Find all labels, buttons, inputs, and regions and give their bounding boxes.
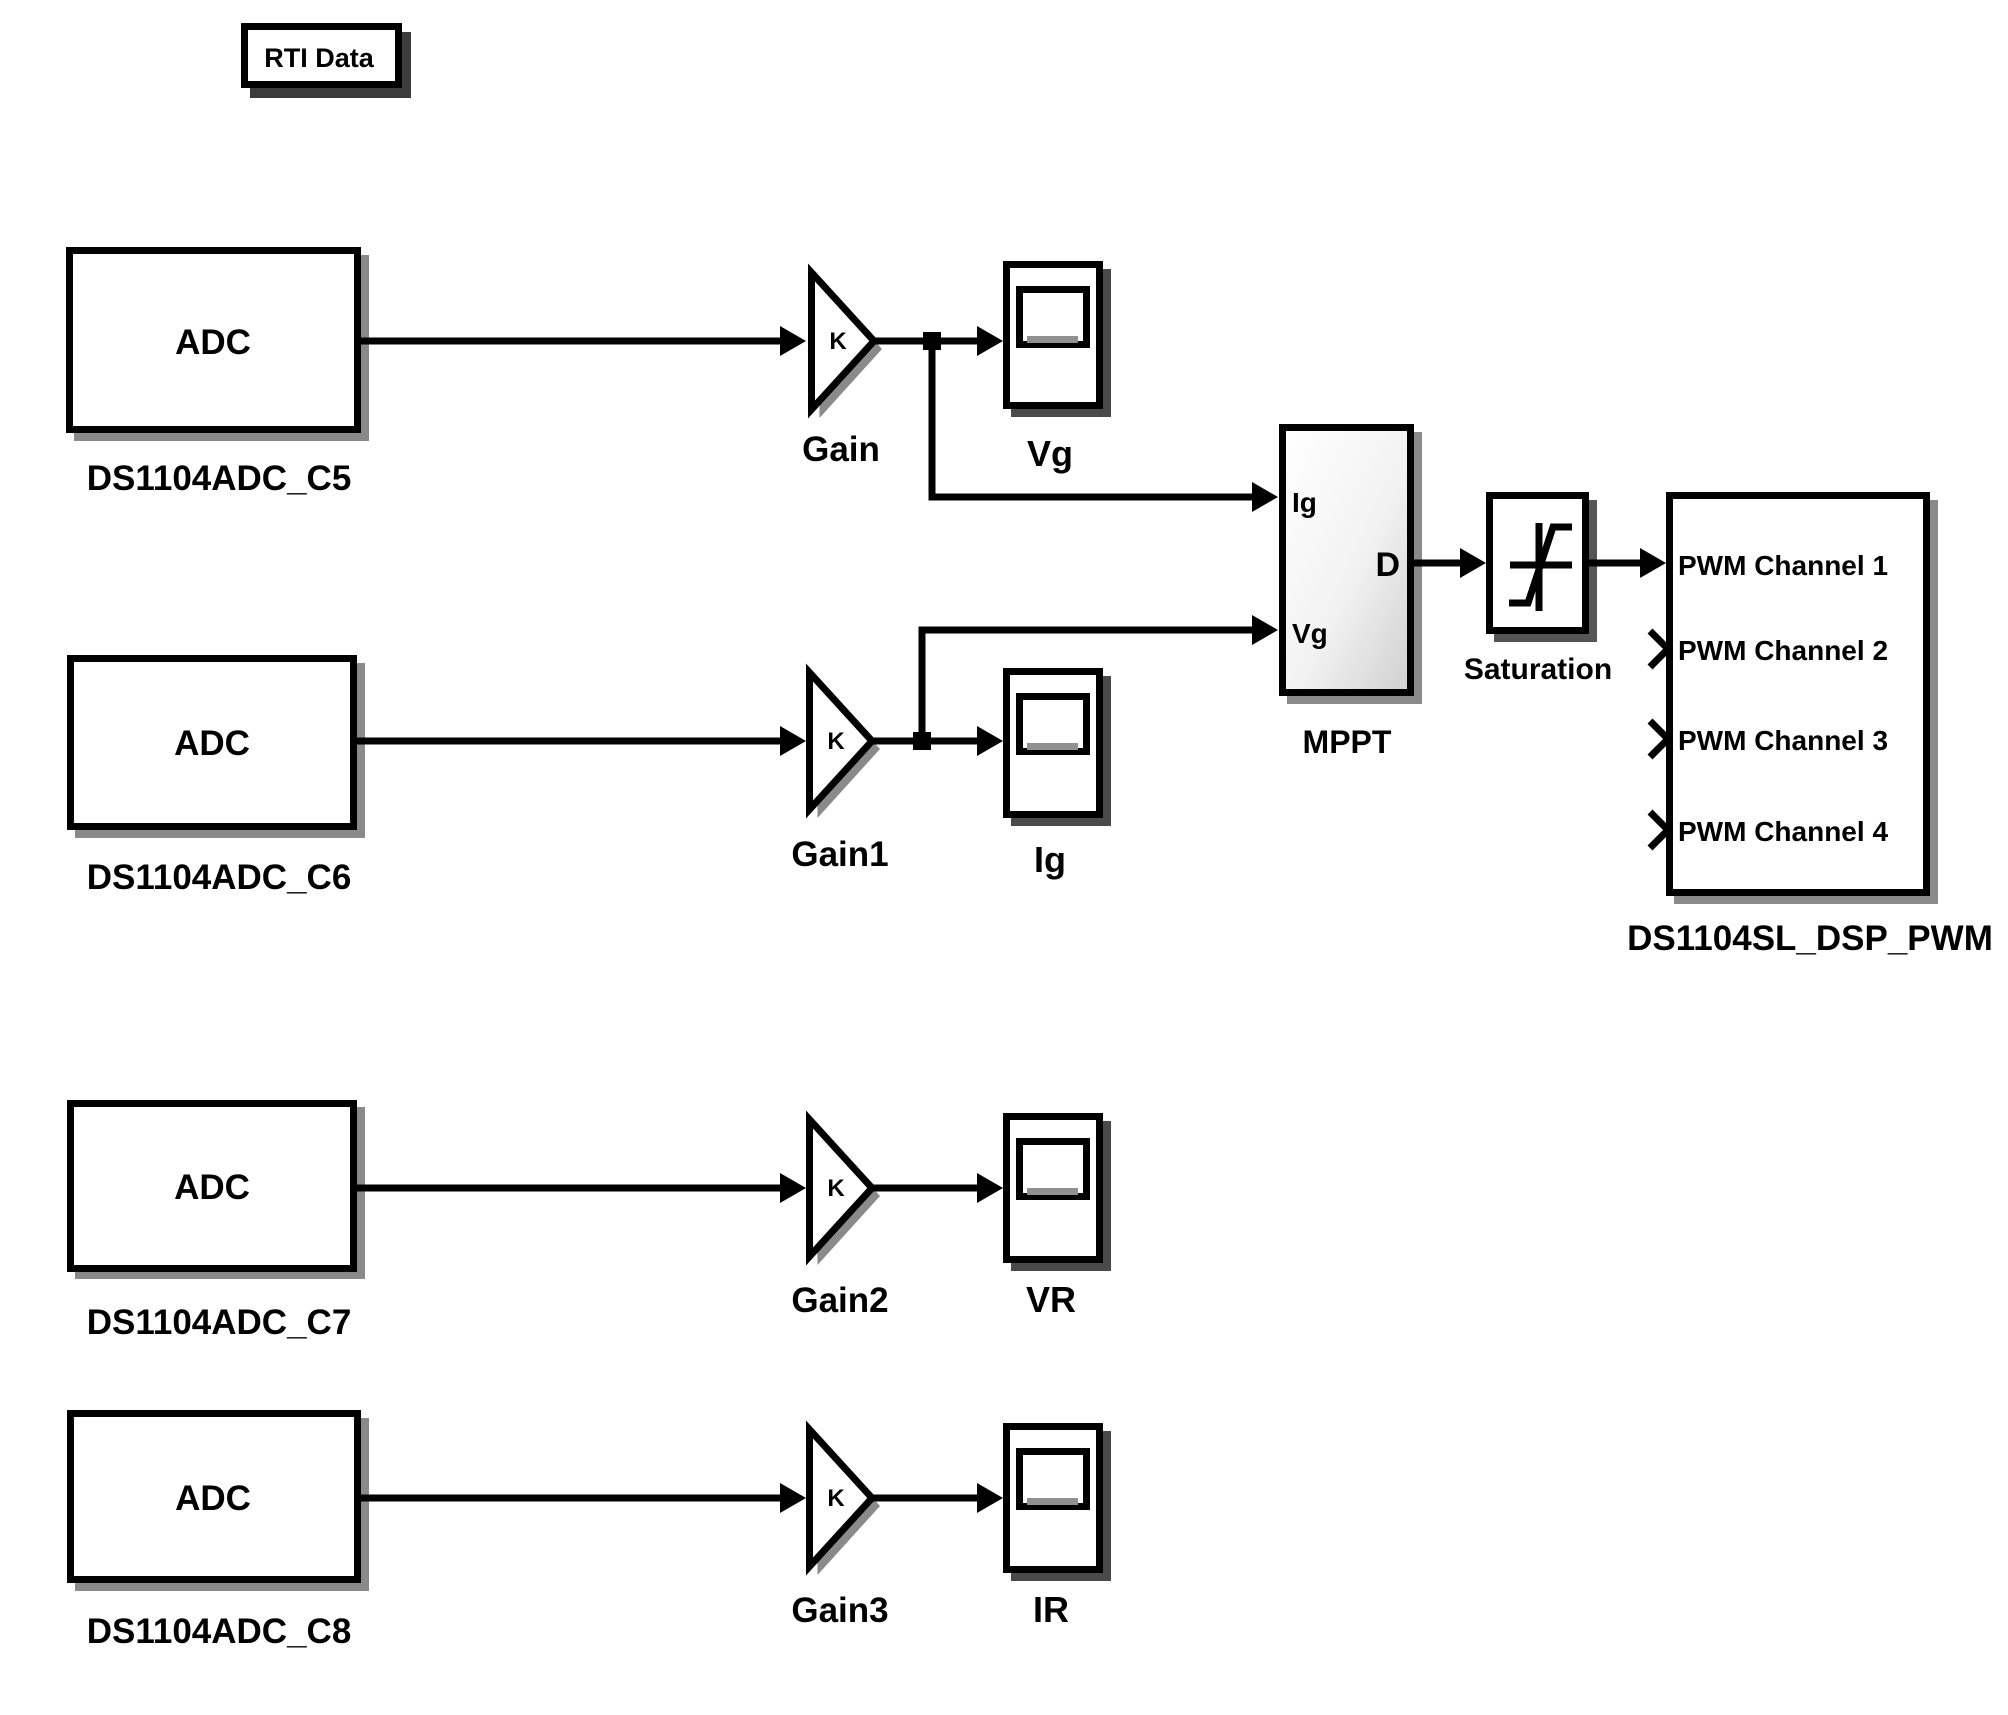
svg-text:VR: VR xyxy=(1026,1279,1076,1320)
svg-text:DS1104ADC_C8: DS1104ADC_C8 xyxy=(87,1612,352,1651)
svg-text:ADC: ADC xyxy=(174,724,250,763)
gain Gain2 xyxy=(791,1120,888,1321)
svg-text:PWM Channel 3: PWM Channel 3 xyxy=(1678,725,1888,756)
port chevron PWM channel 3 xyxy=(1650,721,1668,757)
scope Vg xyxy=(1007,265,1112,475)
port chevron PWM channel 2 xyxy=(1650,631,1668,667)
block ADC3 (DS1104ADC_C7) xyxy=(71,1104,366,1343)
svg-text:DS1104SL_DSP_PWM: DS1104SL_DSP_PWM xyxy=(1627,919,1993,958)
svg-text:DS1104ADC_C5: DS1104ADC_C5 xyxy=(87,459,352,498)
gain Gain1 xyxy=(791,673,888,875)
svg-text:Gain1: Gain1 xyxy=(791,835,888,874)
gain Gain xyxy=(802,273,882,470)
svg-text:DS1104ADC_C7: DS1104ADC_C7 xyxy=(87,1303,352,1342)
svg-text:K: K xyxy=(827,1175,845,1202)
svg-text:ADC: ADC xyxy=(174,1168,250,1207)
wire Gain1 to Ig scope xyxy=(872,726,1003,756)
wire Gain2 to VR scope xyxy=(872,1173,1003,1203)
port chevron PWM channel 4 xyxy=(1650,812,1668,848)
wire Gain to Vg scope xyxy=(874,326,1003,356)
wire ADC1 to Gain xyxy=(361,326,806,356)
annotation RTI Data xyxy=(245,27,412,99)
svg-text:ADC: ADC xyxy=(175,1479,251,1518)
svg-text:Gain: Gain xyxy=(802,430,880,469)
svg-text:Gain2: Gain2 xyxy=(791,1281,888,1320)
svg-text:ADC: ADC xyxy=(175,323,251,362)
block ADC4 (DS1104ADC_C8) xyxy=(71,1414,370,1652)
scope IR xyxy=(1007,1427,1112,1631)
block ADC2 (DS1104ADC_C6) xyxy=(71,659,366,898)
block MPPT xyxy=(1283,428,1423,761)
svg-text:K: K xyxy=(827,1485,845,1512)
svg-text:Saturation: Saturation xyxy=(1464,653,1612,686)
svg-text:IR: IR xyxy=(1033,1589,1069,1630)
svg-text:Ig: Ig xyxy=(1034,839,1066,880)
svg-text:DS1104ADC_C6: DS1104ADC_C6 xyxy=(87,858,352,897)
wire junction Vg to MPPT input 1 xyxy=(932,341,1278,512)
svg-text:PWM Channel 2: PWM Channel 2 xyxy=(1678,635,1888,666)
node junction Ig xyxy=(913,732,931,750)
wire Gain3 to IR scope xyxy=(872,1483,1003,1513)
wire ADC3 to Gain2 xyxy=(357,1173,806,1203)
svg-text:Vg: Vg xyxy=(1292,618,1328,649)
svg-text:K: K xyxy=(829,328,847,355)
scope Ig xyxy=(1007,672,1112,881)
svg-text:D: D xyxy=(1375,546,1400,584)
node junction Vg xyxy=(923,332,941,350)
svg-text:PWM Channel 1: PWM Channel 1 xyxy=(1678,550,1888,581)
svg-text:Ig: Ig xyxy=(1292,487,1317,518)
wire junction Ig to MPPT input 2 xyxy=(922,615,1278,741)
scope VR xyxy=(1007,1117,1112,1321)
wire ADC2 to Gain1 xyxy=(357,726,806,756)
svg-text:PWM Channel 4: PWM Channel 4 xyxy=(1678,816,1888,847)
svg-text:Vg: Vg xyxy=(1027,433,1073,474)
block Saturation xyxy=(1464,496,1612,687)
gain Gain3 xyxy=(791,1430,888,1631)
svg-text:MPPT: MPPT xyxy=(1303,724,1392,760)
block ADC1 (DS1104ADC_C5) xyxy=(70,251,370,499)
svg-text:RTI Data: RTI Data xyxy=(264,43,375,73)
wire ADC4 to Gain3 xyxy=(361,1483,806,1513)
wire Saturation to PWM channel 1 xyxy=(1589,548,1666,578)
svg-text:K: K xyxy=(827,728,845,755)
block DS1104SL_DSP_PWM xyxy=(1627,496,1993,959)
wire MPPT to Saturation xyxy=(1414,548,1486,578)
svg-text:Gain3: Gain3 xyxy=(791,1591,888,1630)
